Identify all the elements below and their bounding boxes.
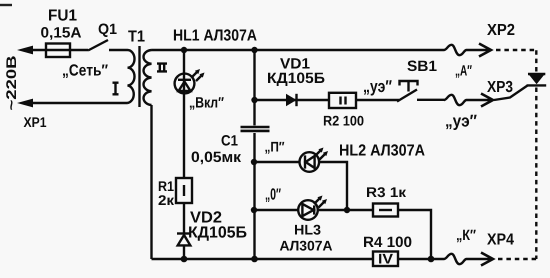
label Q1 — [99, 24, 117, 38]
connector XP4 arrow — [481, 253, 493, 266]
wire R2 to SB1 — [356, 99, 399, 101]
label II secondary — [160, 65, 164, 71]
wire VD2 to rail — [183, 246, 185, 259]
label T1 — [128, 31, 144, 42]
wire junction to R3 — [318, 209, 373, 211]
label HL3 — [295, 225, 321, 235]
label R2 100 — [324, 116, 364, 126]
LED HL2 — [300, 152, 320, 172]
wire break squiggle XP2 — [444, 45, 479, 55]
LED HL3 emission arrows — [314, 198, 320, 204]
wire top 220V input — [32, 49, 88, 51]
node VD2 rail junction — [181, 256, 188, 263]
label R4 100 — [364, 237, 411, 248]
resistor R2 — [329, 93, 356, 108]
label VD2 — [190, 211, 221, 222]
label P — [265, 142, 284, 154]
wire P branch — [254, 161, 300, 163]
node 0 branch junction — [251, 207, 257, 213]
label HL1 AL307A — [174, 29, 257, 40]
wire VD1 branch — [255, 99, 330, 101]
resistor R3 — [373, 204, 398, 217]
label I primary — [114, 84, 116, 94]
pushbutton SB1 — [397, 90, 417, 102]
label XP4 — [487, 234, 514, 245]
connector XP1 arrow bottom — [17, 99, 33, 108]
wire R3 to rail — [398, 210, 431, 259]
label ~220V — [6, 56, 16, 110]
wire HL1 branch — [183, 50, 185, 178]
dashed wire thyristor anode column — [535, 50, 537, 72]
wire 0 branch — [254, 209, 298, 211]
label XP1 — [24, 117, 47, 127]
LED HL2 emission arrows — [315, 150, 321, 156]
label K — [457, 230, 476, 243]
node center rail junction — [251, 256, 258, 263]
wire switch to transformer — [109, 49, 128, 51]
label C1 — [222, 135, 238, 146]
wire secondary bottom lead — [150, 105, 152, 259]
wire XP3 to thyristor gate — [494, 86, 528, 101]
connector XP2 arrow — [479, 44, 491, 57]
wire SB1 to XP3 — [417, 99, 444, 101]
dashed wire XP2 to thyristor — [496, 49, 536, 51]
label R1 — [159, 181, 174, 191]
label 0,15A — [41, 27, 81, 40]
capacitor C1 — [241, 126, 270, 129]
LED HL3 — [298, 200, 318, 220]
diode VD1 — [286, 94, 297, 106]
connector XP1 arrow top — [17, 46, 33, 55]
LED HL1 emission arrows — [192, 72, 198, 78]
transformer T1 primary winding I — [128, 50, 135, 103]
node R3 rail junction — [428, 256, 435, 263]
label SB1 — [407, 61, 436, 72]
transformer T1 secondary winding II — [144, 50, 152, 105]
label XP3 — [487, 81, 512, 92]
connector XP3 arrow — [481, 94, 493, 107]
label FU1 — [49, 10, 77, 21]
label KD105B VD1 — [268, 73, 324, 87]
wire break squiggle XP3 — [444, 95, 481, 105]
wire center column lower — [253, 133, 255, 259]
wire bottom 220V input — [33, 102, 128, 104]
node VD1 branch junction — [251, 97, 257, 103]
label KD105B VD2 — [189, 226, 246, 240]
label UE XP3 — [446, 115, 477, 130]
dashed wire XP4 to thyristor — [498, 258, 536, 260]
node HL2 HL3 junction — [344, 207, 350, 213]
switch Q1 blade — [88, 40, 108, 51]
transformer T1 core — [138, 46, 140, 107]
label R3 1k — [367, 187, 406, 197]
LED HL1 — [175, 74, 195, 94]
wire break squiggle XP4 — [444, 254, 481, 264]
wire HL2 to junction — [319, 162, 347, 210]
diode VD2 — [177, 232, 191, 234]
node C1 top junction — [251, 47, 257, 53]
scan edge artifact — [0, 4, 12, 6]
label A — [456, 65, 472, 78]
label HL2 AL307A — [340, 144, 425, 155]
label AL307A HL3 — [280, 241, 332, 251]
label Vkl — [190, 97, 224, 110]
label VD1 — [280, 58, 310, 68]
label 0,05mk — [192, 152, 241, 165]
wire center column upper — [253, 50, 255, 125]
label UE SB1 — [364, 80, 392, 95]
resistor R1 — [176, 178, 192, 203]
node HL1 top junction — [181, 47, 187, 53]
resistor R4 — [373, 252, 398, 267]
label 2k — [159, 195, 175, 205]
label Set' — [63, 64, 108, 78]
wire top rail A — [152, 49, 445, 51]
node P branch junction — [251, 159, 257, 165]
wire bottom rail K — [152, 258, 445, 260]
wire R1 to VD2 — [183, 203, 185, 234]
fuse FU1 — [46, 44, 70, 58]
thyristor under test — [528, 73, 545, 75]
label 0 — [266, 188, 281, 202]
label XP2 — [487, 24, 514, 35]
